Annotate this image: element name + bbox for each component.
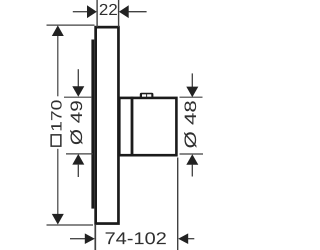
dim 170 extension lines xyxy=(47,24,95,26)
dim 48 text xyxy=(184,101,196,148)
dim 48 extension lines xyxy=(180,96,203,98)
dim 22 text xyxy=(100,4,117,15)
dim 74-102 text xyxy=(106,232,166,244)
handle cylinder xyxy=(119,98,176,155)
dim 74-102 extension lines xyxy=(94,225,96,250)
square symbol xyxy=(51,135,61,146)
dim 74-102 right arrow xyxy=(178,233,188,244)
dim 49 extension lines xyxy=(64,96,92,98)
dim 49 arrows xyxy=(77,69,79,87)
dim 49 text xyxy=(70,101,82,144)
dim 48 arrows xyxy=(191,73,193,87)
handle collar line xyxy=(131,97,134,157)
dim 22 right arrow xyxy=(119,5,129,18)
sleeve body (22 deep) xyxy=(96,27,119,223)
dim 170 line + arrows xyxy=(57,34,59,96)
dim 170 text xyxy=(51,100,62,130)
button on handle top xyxy=(140,93,154,99)
dim 74-102 left arrow xyxy=(70,238,86,240)
dim 22 left arrow xyxy=(73,11,88,13)
dim 22 extension lines xyxy=(96,0,98,27)
escutcheon plate (side view, 170 square) xyxy=(91,40,94,209)
